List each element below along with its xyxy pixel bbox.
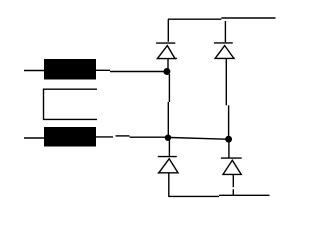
diode D1 <box>156 43 177 59</box>
wire: D1 anode lead to node A <box>167 59 169 69</box>
diode D3 <box>158 157 178 173</box>
node C junction dot <box>225 136 232 143</box>
node A junction dot <box>163 68 170 75</box>
diode D2 <box>214 43 235 59</box>
transformer top winding (primary) <box>44 59 96 80</box>
wire: AC input lead to bottom winding <box>24 137 45 139</box>
wire: AC input lead to top winding <box>24 70 45 72</box>
wire: top winding to node A <box>95 70 166 71</box>
wire: top output bus <box>168 18 276 19</box>
diode D4 <box>221 158 242 174</box>
transformer bottom winding (secondary) <box>44 127 96 147</box>
wire: D1 cathode lead from top bus <box>167 19 169 42</box>
wire: D4 anode lead to bottom bus (with hand-drawn gap) <box>232 174 234 196</box>
wire: D2 anode lead to node C <box>226 59 228 137</box>
transformer core <box>44 89 98 119</box>
wire: node A to node B <box>168 74 169 135</box>
wire: bottom winding to node B (broken hand-drawn strokes) <box>95 136 166 137</box>
wire: D2 cathode lead from top bus <box>224 21 226 42</box>
wire: node B to node C <box>171 138 227 140</box>
wire: node C to D4 cathode <box>228 142 230 158</box>
wire: node B to D3 cathode <box>168 141 170 157</box>
wire: D3 anode lead to bottom bus <box>168 173 170 196</box>
node B junction dot <box>165 135 171 141</box>
wire: bottom output bus <box>168 195 269 196</box>
